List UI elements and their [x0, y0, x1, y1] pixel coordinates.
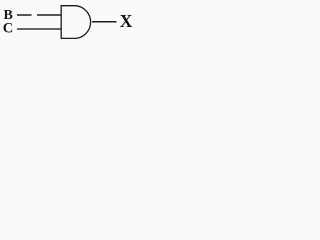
AND gate U1 — [61, 6, 90, 39]
wire B input (dashed) — [17, 14, 61, 16]
wire C input — [17, 28, 62, 30]
wire X output — [92, 21, 117, 23]
svg-text:X: X — [120, 11, 133, 31]
svg-text:C: C — [3, 21, 13, 37]
